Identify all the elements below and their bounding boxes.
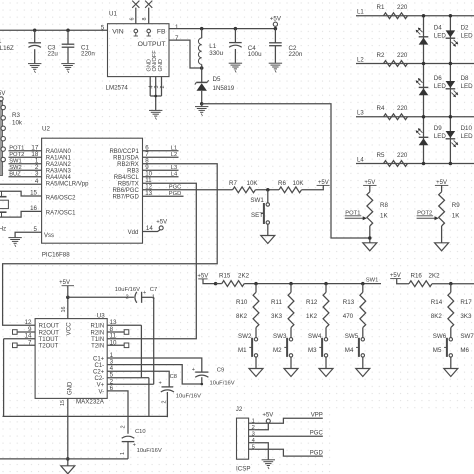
svg-text:L4: L4 (171, 171, 178, 177)
svg-text:VCC: VCC (66, 322, 73, 336)
svg-text:D4: D4 (434, 25, 442, 32)
svg-text:L1: L1 (357, 10, 364, 16)
svg-text:LM2574: LM2574 (106, 85, 129, 92)
svg-text:OUTPUT: OUTPUT (138, 41, 166, 48)
svg-text:RA4/AN4: RA4/AN4 (46, 175, 72, 181)
svg-text:R1IN: R1IN (91, 324, 105, 330)
svg-text:10K: 10K (247, 180, 259, 187)
svg-text:16: 16 (30, 205, 37, 212)
svg-text:1K: 1K (380, 212, 388, 219)
svg-text:+5V: +5V (262, 413, 273, 419)
svg-text:L4: L4 (357, 157, 364, 163)
svg-text:PGD: PGD (310, 450, 324, 456)
svg-text:RA3/AN3: RA3/AN3 (46, 169, 72, 175)
svg-text:8K2: 8K2 (236, 313, 248, 320)
svg-text:ICSP: ICSP (236, 465, 250, 472)
svg-text:3K3: 3K3 (271, 313, 283, 320)
svg-text:V-: V- (99, 389, 105, 395)
svg-text:R16: R16 (411, 272, 423, 279)
svg-text:8: 8 (142, 18, 148, 21)
svg-text:SW1: SW1 (9, 158, 22, 164)
svg-text:22u: 22u (48, 51, 59, 58)
svg-text:RB6/PGC: RB6/PGC (112, 188, 139, 194)
svg-text:SW2: SW2 (9, 165, 22, 171)
svg-text:PIC16F88: PIC16F88 (42, 252, 70, 259)
svg-text:+5V: +5V (436, 180, 447, 186)
svg-text:D9: D9 (434, 125, 442, 132)
svg-text:SET: SET (251, 212, 263, 219)
svg-text:RB5/TX: RB5/TX (118, 182, 139, 188)
svg-text:15: 15 (60, 400, 66, 406)
svg-text:10uF/16V: 10uF/16V (210, 381, 235, 387)
svg-text:2: 2 (160, 86, 166, 89)
svg-text:RA0/AN0: RA0/AN0 (46, 149, 72, 155)
svg-text:R2IN: R2IN (91, 330, 105, 336)
svg-text:100u: 100u (248, 51, 262, 58)
svg-text:SW6: SW6 (433, 333, 447, 340)
svg-text:BUZ: BUZ (9, 171, 21, 177)
svg-text:L1: L1 (209, 43, 216, 50)
svg-text:RA6/OSC2: RA6/OSC2 (46, 195, 76, 201)
svg-text:RB7/PGD: RB7/PGD (112, 195, 139, 201)
svg-text:10K: 10K (293, 180, 305, 187)
svg-text:R5: R5 (377, 152, 385, 159)
svg-text:1: 1 (120, 452, 126, 455)
svg-text:10uF/16V: 10uF/16V (137, 448, 162, 454)
svg-text:T1OUT: T1OUT (39, 337, 59, 343)
svg-text:+: + (192, 367, 195, 373)
svg-text:R8: R8 (380, 202, 388, 209)
svg-text:RB4/SCL: RB4/SCL (114, 175, 140, 181)
svg-text:U3: U3 (97, 313, 105, 320)
svg-text:4: 4 (35, 178, 39, 185)
svg-text:330u: 330u (209, 50, 223, 57)
svg-text:GND: GND (68, 381, 74, 395)
svg-text:M6: M6 (460, 347, 469, 354)
svg-text:SW4: SW4 (308, 333, 322, 340)
svg-text:C2-: C2- (95, 376, 105, 382)
svg-text:+5V: +5V (364, 180, 375, 186)
svg-text:D5: D5 (213, 76, 221, 83)
svg-text:RB3: RB3 (127, 169, 139, 175)
svg-text:C8: C8 (170, 374, 177, 380)
svg-text:R15: R15 (219, 272, 231, 279)
svg-text:5: 5 (101, 25, 105, 32)
svg-text:2: 2 (252, 425, 255, 431)
svg-text:5: 5 (34, 226, 38, 233)
svg-text:LED: LED (461, 133, 474, 140)
svg-text:RB2/RX: RB2/RX (117, 162, 139, 168)
svg-text:C10: C10 (135, 429, 146, 435)
svg-text:+5V: +5V (156, 219, 167, 225)
svg-text:L3: L3 (171, 165, 177, 171)
svg-text:220n: 220n (81, 51, 95, 58)
svg-text:3K3: 3K3 (460, 313, 472, 320)
svg-text:POT2: POT2 (9, 152, 24, 158)
svg-text:RA1/AN1: RA1/AN1 (46, 156, 72, 162)
svg-text:7: 7 (175, 35, 179, 42)
svg-text:220n: 220n (289, 51, 303, 58)
svg-text:R2: R2 (377, 52, 385, 59)
svg-text:C1-: C1- (95, 363, 105, 369)
svg-text:U2: U2 (42, 125, 50, 132)
svg-text:R9: R9 (452, 202, 460, 209)
svg-text:RA7/OSC1: RA7/OSC1 (46, 210, 76, 216)
svg-text:2: 2 (121, 425, 127, 428)
svg-text:+: + (133, 443, 136, 449)
svg-text:3: 3 (252, 432, 255, 438)
svg-text:L2: L2 (171, 152, 177, 158)
svg-text:RB1/SDA: RB1/SDA (113, 156, 139, 162)
svg-text:SW5: SW5 (345, 333, 359, 340)
svg-text:470: 470 (343, 313, 354, 320)
svg-text:Vss: Vss (44, 233, 54, 239)
svg-text:LED: LED (434, 32, 447, 39)
svg-text:PL16Z: PL16Z (0, 45, 14, 52)
svg-text:10uF/16V: 10uF/16V (115, 287, 140, 293)
svg-text:RA5/MCLR/Vpp: RA5/MCLR/Vpp (46, 182, 89, 188)
svg-text:SW1: SW1 (250, 197, 264, 204)
svg-text:R3: R3 (12, 112, 20, 119)
svg-text:1: 1 (175, 24, 179, 31)
svg-text:6: 6 (129, 18, 135, 21)
svg-text:R7: R7 (229, 180, 237, 187)
svg-text:RA2/AN2: RA2/AN2 (46, 162, 72, 168)
svg-text:+5V: +5V (270, 16, 282, 23)
svg-text:R11: R11 (271, 299, 282, 306)
svg-text:2K2: 2K2 (238, 272, 250, 279)
svg-text:D10: D10 (461, 125, 473, 132)
svg-text:U1: U1 (109, 10, 117, 17)
svg-text:R2OUT: R2OUT (39, 330, 60, 336)
svg-text:LED: LED (434, 133, 447, 140)
svg-text:T1IN: T1IN (91, 337, 104, 343)
svg-text:220: 220 (397, 105, 408, 112)
svg-text:220: 220 (397, 4, 408, 11)
svg-text:3: 3 (35, 171, 39, 178)
svg-text:PGC: PGC (310, 431, 324, 437)
svg-text:POT1: POT1 (9, 145, 24, 151)
svg-text:+5V: +5V (318, 180, 329, 186)
svg-text:R14: R14 (431, 299, 443, 306)
svg-text:Vdd: Vdd (128, 230, 139, 236)
svg-text:R13: R13 (343, 299, 355, 306)
svg-text:SW1: SW1 (366, 278, 379, 284)
svg-text:RB0/CCP1: RB0/CCP1 (109, 149, 139, 155)
svg-text:T2IN: T2IN (91, 344, 104, 350)
svg-text:16: 16 (61, 307, 67, 313)
svg-text:FB: FB (157, 28, 166, 35)
svg-text:M1: M1 (238, 347, 247, 354)
svg-text:SW3: SW3 (273, 333, 287, 340)
svg-text:M5: M5 (433, 347, 442, 354)
svg-text:15: 15 (30, 190, 37, 197)
svg-text:R12: R12 (306, 299, 318, 306)
svg-text:R6: R6 (278, 180, 286, 187)
svg-text:+: + (143, 290, 146, 296)
svg-text:C1+: C1+ (93, 356, 105, 362)
svg-text:D6: D6 (434, 75, 442, 82)
svg-text:T2OUT: T2OUT (39, 344, 59, 350)
svg-text:L1: L1 (171, 145, 177, 151)
svg-text:LED: LED (461, 32, 474, 39)
svg-text:C2+: C2+ (93, 370, 105, 376)
svg-text:R4: R4 (377, 105, 385, 112)
svg-text:+5V: +5V (390, 273, 401, 279)
svg-text:LED: LED (461, 83, 474, 90)
svg-text:1K2: 1K2 (306, 313, 318, 320)
svg-text:2: 2 (162, 401, 168, 404)
svg-text:M4: M4 (345, 347, 354, 354)
svg-text:R10: R10 (236, 299, 248, 306)
svg-text:+: + (159, 381, 162, 387)
svg-text:J2: J2 (236, 406, 243, 413)
svg-text:220: 220 (397, 52, 408, 59)
svg-text:1N5819: 1N5819 (213, 85, 235, 92)
svg-text:C9: C9 (217, 368, 224, 374)
svg-text:SW7: SW7 (460, 333, 474, 340)
svg-text:PGD: PGD (169, 191, 182, 197)
svg-text:SW2: SW2 (238, 333, 252, 340)
svg-text:LED: LED (434, 83, 447, 90)
svg-text:C7: C7 (150, 287, 157, 293)
svg-text:D2: D2 (461, 25, 469, 32)
svg-text:M3: M3 (308, 347, 317, 354)
svg-text:V+: V+ (97, 383, 105, 389)
svg-text:R1: R1 (377, 4, 385, 11)
svg-text:5: 5 (252, 445, 255, 451)
svg-text:VPP: VPP (311, 413, 323, 419)
svg-text:R1OUT: R1OUT (39, 324, 60, 330)
svg-text:PGC: PGC (169, 184, 182, 190)
svg-text:10uF/16V: 10uF/16V (176, 394, 201, 400)
svg-text:1K: 1K (452, 212, 460, 219)
svg-text:M2: M2 (273, 347, 282, 354)
svg-text:1: 1 (252, 419, 255, 425)
svg-text:R17: R17 (460, 299, 472, 306)
svg-text:8K2: 8K2 (431, 313, 443, 320)
svg-text:4MHz: 4MHz (0, 227, 6, 233)
svg-text:MAX232A: MAX232A (76, 399, 105, 406)
svg-text:10k: 10k (12, 119, 23, 126)
svg-text:2: 2 (126, 295, 129, 301)
svg-text:+5V: +5V (197, 273, 208, 279)
svg-text:2K2: 2K2 (429, 272, 441, 279)
svg-text:D8: D8 (461, 75, 469, 82)
svg-text:VIN: VIN (112, 28, 123, 35)
svg-text:L3: L3 (357, 111, 364, 117)
svg-text:GND: GND (158, 59, 164, 71)
svg-text:220: 220 (397, 152, 408, 159)
svg-text:+5V: +5V (59, 280, 70, 286)
svg-text:L2: L2 (357, 57, 364, 63)
